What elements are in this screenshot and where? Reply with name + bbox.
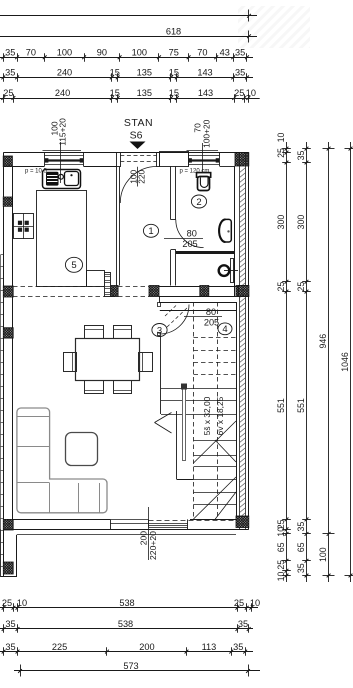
svg-text:35: 35: [296, 563, 306, 573]
svg-text:10: 10: [276, 527, 286, 537]
svg-text:p = 120 cm: p = 120 cm: [180, 168, 210, 174]
svg-text:90: 90: [97, 48, 107, 58]
svg-text:220+20: 220+20: [148, 531, 158, 560]
svg-text:35: 35: [233, 642, 243, 652]
svg-text:946: 946: [318, 334, 328, 349]
svg-text:100: 100: [318, 547, 328, 562]
svg-text:1046: 1046: [340, 352, 350, 372]
svg-text:35: 35: [235, 68, 245, 78]
svg-text:205: 205: [204, 318, 219, 328]
svg-text:25: 25: [234, 598, 244, 608]
svg-text:15: 15: [169, 68, 179, 78]
svg-text:4: 4: [222, 324, 227, 335]
svg-text:5š x 32,00: 5š x 32,00: [202, 396, 212, 435]
svg-text:100: 100: [132, 48, 147, 58]
svg-text:25: 25: [2, 598, 12, 608]
svg-text:135: 135: [137, 68, 152, 78]
svg-text:538: 538: [118, 619, 133, 629]
svg-text:240: 240: [55, 88, 70, 98]
svg-text:STAN: STAN: [124, 117, 153, 129]
svg-text:25: 25: [276, 282, 286, 292]
svg-text:43: 43: [220, 48, 230, 58]
svg-text:538: 538: [119, 598, 134, 608]
svg-text:6v x 18,25: 6v x 18,25: [215, 396, 225, 435]
svg-text:70: 70: [197, 48, 207, 58]
svg-text:65: 65: [276, 542, 286, 552]
svg-text:10: 10: [276, 572, 286, 582]
svg-text:300: 300: [276, 215, 286, 230]
svg-text:618: 618: [166, 27, 181, 37]
svg-text:35: 35: [296, 151, 306, 161]
svg-text:135: 135: [137, 88, 152, 98]
svg-text:10: 10: [246, 88, 256, 98]
svg-text:35: 35: [238, 619, 248, 629]
svg-text:115+20: 115+20: [58, 118, 68, 146]
svg-text:3: 3: [157, 325, 162, 336]
svg-text:15: 15: [110, 68, 120, 78]
svg-text:75: 75: [169, 48, 179, 58]
svg-text:200: 200: [139, 642, 154, 652]
svg-text:300: 300: [296, 215, 306, 230]
svg-text:551: 551: [296, 398, 306, 413]
svg-text:1: 1: [148, 226, 153, 237]
svg-text:10: 10: [276, 133, 286, 143]
svg-text:65: 65: [296, 542, 306, 552]
svg-text:80: 80: [206, 307, 216, 317]
svg-text:25: 25: [296, 282, 306, 292]
svg-text:10: 10: [250, 598, 260, 608]
svg-text:80: 80: [187, 229, 197, 239]
svg-text:205: 205: [182, 239, 197, 249]
svg-text:225: 225: [52, 642, 67, 652]
svg-text:35: 35: [5, 68, 15, 78]
svg-text:5: 5: [71, 260, 76, 271]
svg-text:100: 100: [57, 48, 72, 58]
svg-text:35: 35: [235, 48, 245, 58]
svg-text:70: 70: [26, 48, 36, 58]
svg-text:15: 15: [110, 88, 120, 98]
svg-text:2: 2: [196, 197, 201, 208]
svg-text:573: 573: [123, 661, 138, 671]
svg-text:p = 10,5: p = 10,5: [25, 168, 48, 174]
svg-text:100+20: 100+20: [202, 119, 212, 148]
svg-text:200: 200: [138, 531, 148, 546]
svg-text:35: 35: [5, 642, 15, 652]
svg-text:35: 35: [5, 619, 15, 629]
svg-text:143: 143: [198, 88, 213, 98]
svg-text:25: 25: [276, 148, 286, 158]
svg-text:S6: S6: [130, 130, 143, 142]
svg-text:113: 113: [202, 642, 217, 652]
svg-text:143: 143: [197, 68, 212, 78]
svg-text:25: 25: [276, 560, 286, 570]
svg-text:240: 240: [57, 68, 72, 78]
svg-text:35: 35: [296, 522, 306, 532]
svg-text:15: 15: [169, 88, 179, 98]
svg-text:35: 35: [5, 48, 15, 58]
svg-text:10: 10: [17, 598, 27, 608]
svg-text:551: 551: [276, 398, 286, 413]
svg-text:25: 25: [234, 88, 244, 98]
svg-text:25: 25: [3, 88, 13, 98]
